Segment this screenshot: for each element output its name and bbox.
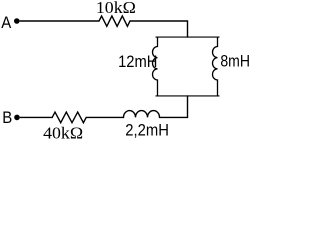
- svg-text:A: A: [1, 13, 12, 32]
- svg-text:10kΩ: 10kΩ: [96, 0, 136, 17]
- svg-text:2,2mH: 2,2mH: [125, 121, 169, 139]
- svg-text:12mH: 12mH: [118, 52, 157, 71]
- svg-text:B: B: [2, 108, 12, 127]
- svg-text:40kΩ: 40kΩ: [43, 124, 83, 139]
- svg-text:8mH: 8mH: [220, 52, 250, 71]
